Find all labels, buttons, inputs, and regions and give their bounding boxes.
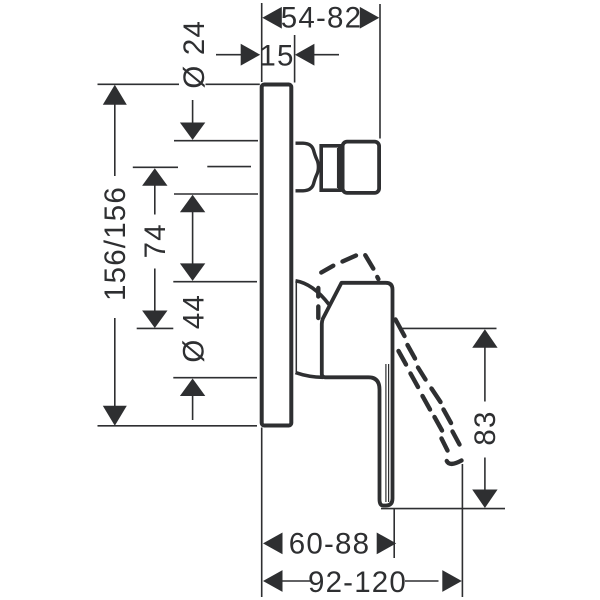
extension line: spout top: [174, 140, 258, 142]
dimension line: 74 upper stem: [154, 185, 156, 215]
svg-text:74: 74: [139, 223, 172, 258]
arrowhead: 92-120 left: [263, 570, 283, 592]
extension line: lever bottom (83 bottom): [381, 508, 505, 510]
arrowhead: O44 up: [180, 379, 205, 397]
dashed raised lever: left edge dash 2: [411, 374, 419, 388]
arrowhead: O44 down: [180, 263, 205, 281]
arrowhead: 92-120 right: [442, 570, 462, 592]
dashed raised lever: right edge dash 4: [432, 389, 441, 403]
extension line: handle axis right (83 top): [403, 327, 497, 329]
lever inner highlight line right: [388, 364, 390, 502]
dashed raised lever: top edge dash 2: [343, 256, 357, 262]
dimension line: 15 right leader: [314, 54, 339, 56]
dimension line: 74 lower stem: [154, 269, 156, 312]
arrowhead: O24 up: [180, 195, 205, 213]
dashed raised lever: left edge dash 1: [399, 351, 407, 365]
svg-text:15: 15: [259, 40, 294, 73]
dashed raised lever: right edge dash 1: [396, 320, 405, 337]
arrowhead: 156/156 bottom: [103, 406, 127, 426]
svg-text:156/156: 156/156: [99, 186, 132, 301]
dimension line: 15 left leader: [216, 54, 243, 56]
arrowhead: 60-88 right: [377, 533, 397, 555]
svg-text:92-120: 92-120: [308, 566, 407, 599]
arrowhead: 15 left: [241, 44, 261, 66]
spout middle cylinder: [321, 146, 340, 190]
dimension line: 156/156 upper stem: [114, 103, 116, 176]
arrowhead: 74 down: [142, 311, 167, 329]
dimension line: 83 upper stem: [484, 347, 486, 402]
extension line: escutcheon bottom (O44 bottom): [173, 377, 257, 379]
svg-text:Ø 44: Ø 44: [178, 294, 211, 363]
spout cone: [296, 143, 319, 191]
dimension line: 92-120 left leader: [282, 580, 310, 582]
escutcheon bottom arc: [296, 373, 324, 378]
dimension line: O24/O44 middle stem: [192, 212, 194, 264]
dashed raised lever: top edge dash 1: [321, 266, 333, 273]
extension line: handle axis left: [137, 327, 174, 329]
dashed raised lever: right edge dash 3: [418, 368, 426, 380]
dashed raised lever: left edge dash 3: [423, 396, 431, 410]
extension line: spout bottom: [174, 193, 258, 195]
dashed raised lever: tip hook: [447, 461, 462, 464]
dashed raised lever: left edge dash 4: [435, 417, 443, 431]
dashed raised lever: right edge dash 6: [453, 432, 460, 445]
extension line: plate top right segment: [206, 83, 260, 85]
wall plate: [262, 85, 292, 426]
dashed raised lever: right edge dash 2: [408, 345, 416, 359]
extension line: plate bottom: [98, 425, 258, 427]
dashed raised lever: right edge dash 5: [444, 410, 452, 424]
arrowhead: 15 right: [295, 44, 315, 66]
dashed raised lever: left edge vertical dash 2: [316, 307, 320, 319]
dashed raised lever: right edge upper dash: [365, 255, 373, 268]
dimension line: 156/156 lower stem: [114, 318, 116, 407]
arrowhead: O24 down: [180, 123, 205, 140]
arrowhead: 54-82 right: [360, 7, 380, 29]
svg-text:83: 83: [469, 410, 502, 445]
extension line: spout centerline left: [133, 166, 178, 168]
extension line: plate left face, bottom: [261, 428, 263, 598]
arrowhead: 54-82 left: [262, 7, 282, 29]
svg-text:60-88: 60-88: [289, 527, 370, 560]
dashed raised lever: right edge dot: [377, 277, 378, 279]
arrowhead: 83 down: [472, 490, 497, 509]
dimension line: O24 top stem: [192, 100, 194, 123]
spout end cap: [343, 142, 380, 193]
extension line: spout end (54-82 right): [379, 4, 381, 139]
lever inner highlight line left: [385, 364, 387, 502]
extension line: escutcheon top (O44 top): [173, 281, 257, 283]
dimension line: O44 bottom stem: [192, 396, 194, 420]
extension line: solid lever foot (60-88 right): [393, 509, 395, 558]
dashed raised lever: left edge dash 5: [442, 439, 448, 451]
dimension line: 83 lower stem: [484, 458, 486, 491]
extension line: plate right face (15 right): [294, 35, 296, 83]
dashed raised lever: left edge vertical dash 1: [316, 288, 320, 297]
spout cylinder groove line: [337, 148, 339, 188]
handle body and lever: [322, 283, 393, 506]
svg-text:Ø 24: Ø 24: [178, 20, 211, 89]
dimension line: 92-120 right leader: [405, 580, 439, 582]
extension line: plate top left segment: [98, 83, 180, 85]
arrowhead: 74 up: [142, 168, 167, 186]
extension line: plate left face, top: [261, 3, 263, 82]
escutcheon base line on plate: [295, 282, 297, 372]
svg-text:54-82: 54-82: [281, 1, 362, 34]
arrowhead: 156/156 top: [103, 85, 127, 105]
arrowhead: 60-88 left: [263, 533, 283, 555]
escutcheon top arc: [296, 281, 330, 305]
spout base line on plate: [295, 142, 297, 193]
arrowhead: 83 up: [472, 329, 497, 348]
extension line: spout centerline right: [207, 166, 251, 168]
extension line: dashed lever tip (92-120 right): [461, 464, 463, 597]
